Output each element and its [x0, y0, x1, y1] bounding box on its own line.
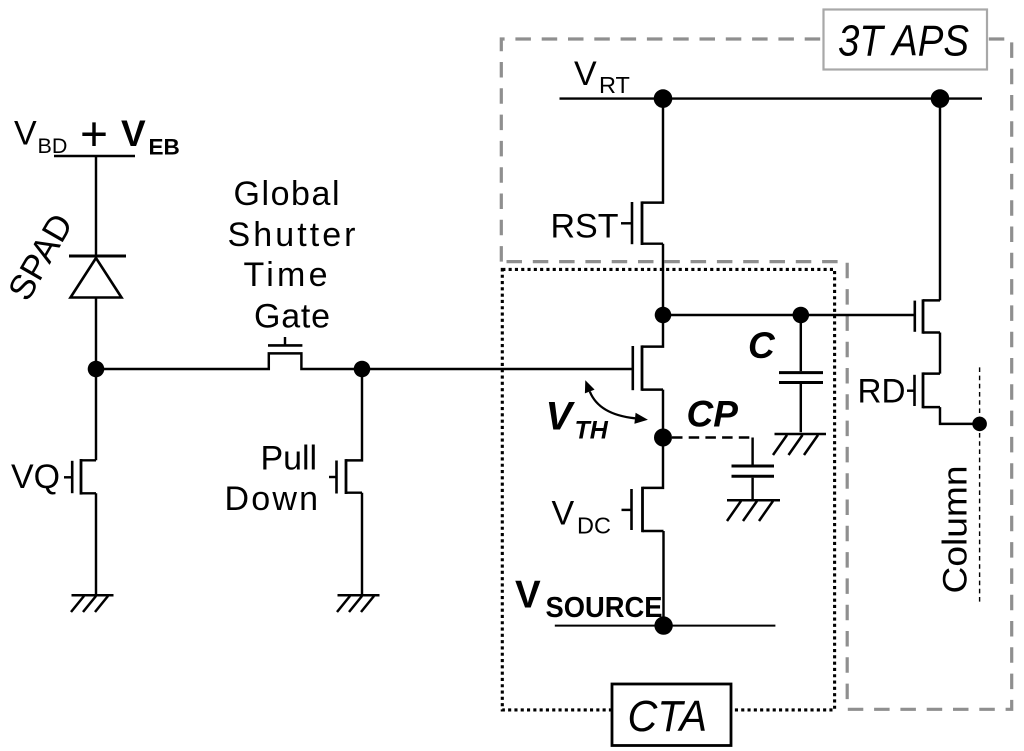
svg-text:CTA: CTA: [628, 692, 708, 741]
svg-text:SPAD: SPAD: [1, 207, 81, 307]
svg-text:V: V: [574, 55, 597, 93]
svg-text:TH: TH: [575, 416, 609, 444]
svg-text:VQ: VQ: [11, 458, 60, 496]
svg-text:SOURCE: SOURCE: [546, 592, 663, 624]
svg-text:RST: RST: [551, 207, 619, 245]
svg-text:V: V: [14, 114, 37, 152]
svg-text:RD: RD: [858, 372, 906, 410]
svg-text:C: C: [748, 325, 776, 366]
svg-text:Gate: Gate: [254, 297, 330, 335]
svg-text:Column: Column: [937, 466, 975, 594]
svg-text:V: V: [121, 113, 146, 154]
svg-text:RT: RT: [599, 72, 630, 98]
svg-text:V: V: [552, 495, 575, 533]
svg-text:CP: CP: [687, 393, 739, 434]
svg-text:DC: DC: [577, 512, 611, 538]
svg-text:EB: EB: [149, 134, 180, 159]
svg-text:+: +: [80, 109, 108, 162]
svg-text:Shutter: Shutter: [228, 216, 356, 254]
svg-text:Pull: Pull: [261, 440, 318, 478]
svg-text:Time: Time: [244, 256, 328, 294]
svg-text:BD: BD: [38, 134, 68, 158]
svg-text:Global: Global: [234, 175, 340, 213]
svg-text:Down: Down: [225, 480, 319, 518]
svg-text:3T APS: 3T APS: [838, 17, 969, 66]
svg-text:V: V: [515, 573, 541, 616]
svg-text:V: V: [546, 395, 576, 439]
